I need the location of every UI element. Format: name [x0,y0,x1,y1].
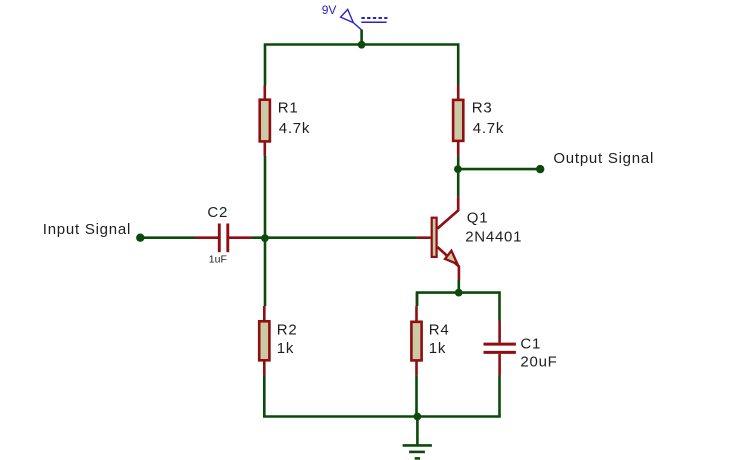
power terminal 9V arrow link [353,23,361,30]
svg-text:Q1: Q1 [467,210,489,227]
power terminal 9V arrow triangle [341,9,354,22]
capacitor C1 lead bottom [498,354,501,376]
terminal input dot [136,234,144,242]
svg-text:C1: C1 [520,335,541,352]
wire power drop [360,30,363,45]
transistor Q1 collector lead [437,196,458,228]
svg-text:1uF: 1uF [209,254,227,266]
resistor R3 body [453,100,463,141]
svg-text:4.7k: 4.7k [279,120,310,137]
resistor R3 lead top [457,86,460,100]
resistor R2 body [259,321,269,360]
svg-text:20uF: 20uF [520,353,557,370]
capacitor C1 lead top [498,321,501,343]
capacitor C1 plate top [484,343,516,346]
ground [403,417,432,459]
resistor R4 lead bottom [415,361,418,375]
node emitter junction [455,289,463,297]
svg-text:Output Signal: Output Signal [553,150,654,167]
transistor Q1 base bar [432,218,437,257]
svg-text:2N4401: 2N4401 [465,229,522,246]
wire left vertical [264,156,267,306]
resistor R1 lead top [263,86,266,100]
wire R4 to bottom rail [415,375,418,416]
battery B1 DC symbol solid line [361,21,386,23]
transistor Q1 emitter arrow [445,251,458,264]
resistor R1 body [260,100,270,142]
resistor R4 lead top [415,306,418,321]
capacitor C2 plate right [226,224,229,253]
wire bottom rail [264,375,499,416]
svg-text:9V: 9V [322,3,337,17]
battery B1 DC symbol dashed line [361,17,387,19]
wire emitter to rail [457,280,460,293]
node power junction [358,41,366,49]
resistor R1 lead bottom [263,143,266,156]
resistor R3 lead bottom [457,142,460,157]
capacitor C2 lead right [229,236,252,239]
capacitor C1 plate bottom [484,351,516,354]
svg-text:1k: 1k [429,340,446,357]
node output junction [454,165,462,173]
wire input [140,236,195,239]
resistor R2 lead bottom [263,361,266,375]
transistor Q1 emitter lead [437,247,459,280]
svg-text:1k: 1k [277,340,294,357]
resistor R4 body [411,322,421,361]
wire R4 to emitter rail [416,293,419,307]
wire base [252,236,417,239]
wire R3 to collector [457,156,460,196]
wire top rail [265,45,458,86]
node base junction [261,234,269,242]
wire emitter rail [417,293,500,321]
svg-text:R2: R2 [277,322,298,339]
node ground junction [414,413,422,421]
transistor Q1 base lead [417,236,431,239]
svg-text:R4: R4 [429,322,450,339]
capacitor C2 lead left [196,236,219,239]
capacitor C2 plate left [218,224,221,253]
svg-text:4.7k: 4.7k [473,120,504,137]
svg-text:R3: R3 [472,100,493,117]
svg-text:Input Signal: Input Signal [43,221,131,238]
svg-text:C2: C2 [207,204,228,221]
resistor R2 lead top [263,306,266,321]
svg-text:R1: R1 [278,100,299,117]
terminal output dot [536,165,544,173]
wire output [458,168,540,171]
